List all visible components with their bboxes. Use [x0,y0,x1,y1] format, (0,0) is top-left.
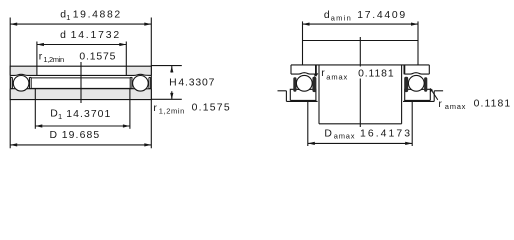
svg-text:amax: amax [334,132,355,141]
svg-text:D: D [50,109,58,120]
svg-text:H: H [169,78,177,89]
svg-text:D: D [50,130,58,141]
svg-text:D: D [324,128,332,139]
svg-text:1,2min: 1,2min [43,55,64,64]
svg-text:d: d [60,30,66,41]
svg-text:amin: amin [331,13,351,22]
svg-text:1,2min: 1,2min [159,106,185,115]
svg-text:1: 1 [66,13,70,22]
svg-text:r: r [438,99,442,110]
svg-text:r: r [39,52,43,63]
svg-text:0.1181: 0.1181 [358,69,394,80]
svg-text:14.3701: 14.3701 [66,109,110,120]
svg-text:19.685: 19.685 [62,130,100,141]
svg-text:d: d [324,10,330,21]
svg-text:amax: amax [445,102,466,111]
svg-text:r: r [321,68,325,79]
svg-text:amax: amax [326,72,347,81]
svg-text:0.1575: 0.1575 [192,103,230,114]
svg-text:0.1575: 0.1575 [79,52,115,63]
svg-text:0.1181: 0.1181 [474,99,511,110]
svg-text:1: 1 [58,112,62,121]
svg-text:r: r [153,103,157,114]
svg-text:4.3307: 4.3307 [178,78,214,89]
